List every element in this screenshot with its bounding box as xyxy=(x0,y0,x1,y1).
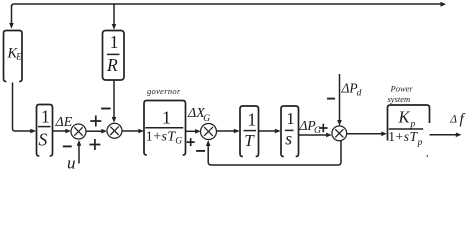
minus sign for 1/R input to S2 xyxy=(101,108,111,110)
summing junction S3 xyxy=(201,124,217,140)
input deltaPd drop into S4 xyxy=(337,74,342,126)
input u arrow into S1 xyxy=(77,140,82,164)
svg-text:p: p xyxy=(417,138,423,148)
wire S4 to power system block xyxy=(347,132,387,137)
svg-text:p: p xyxy=(410,120,416,130)
minus sign for deltaPd input xyxy=(327,98,335,100)
svg-text:S: S xyxy=(39,130,48,150)
svg-text:s: s xyxy=(285,129,292,149)
block 1/s xyxy=(281,106,299,157)
svg-text:,: , xyxy=(426,148,429,159)
wire feedback loop S4 bottom to S3 xyxy=(206,140,341,165)
svg-text:ΔP: ΔP xyxy=(341,81,358,96)
wire 1/S to summing junction S1 xyxy=(53,129,72,134)
svg-text:E: E xyxy=(15,52,22,62)
block power system Kp/(1+sTp) xyxy=(388,105,430,148)
wire drop into 1/R block xyxy=(112,4,117,30)
svg-text:1: 1 xyxy=(41,106,50,126)
svg-text:1+sT: 1+sT xyxy=(388,129,418,144)
label deltaE xyxy=(55,115,73,130)
block governor 1/(1+sTG) xyxy=(144,101,186,156)
svg-text:G: G xyxy=(203,114,210,124)
svg-text:K: K xyxy=(398,108,411,127)
wire S1 to S2 xyxy=(86,129,107,134)
label deltaXG xyxy=(187,106,210,124)
block 1/T xyxy=(240,106,259,157)
wire 1/T to 1/s block xyxy=(259,129,281,134)
minus sign for S3 feedback input xyxy=(196,150,205,152)
wire S3 to 1/T block xyxy=(217,129,240,134)
svg-text:1: 1 xyxy=(110,32,119,52)
block 1/R xyxy=(103,31,125,81)
summing junction S1 xyxy=(71,124,86,139)
wire S2 to governor block xyxy=(122,129,144,134)
stray comma mark xyxy=(426,148,429,159)
plus sign below wire S1-S2 xyxy=(89,139,100,150)
label deltaPd xyxy=(341,81,362,99)
svg-text:R: R xyxy=(106,55,118,75)
wire governor to summing junction S3 xyxy=(186,129,201,134)
svg-text:ΔE: ΔE xyxy=(55,115,73,130)
label Power system xyxy=(388,83,414,104)
svg-text:d: d xyxy=(357,89,362,99)
plus sign for S3 left input xyxy=(187,138,195,146)
wire output delta f xyxy=(430,133,462,138)
wire 1/R output into S2 xyxy=(112,80,117,123)
wire drop into KE block xyxy=(9,5,14,29)
plus sign for S4 left input xyxy=(319,124,328,133)
block KE xyxy=(4,31,23,82)
svg-text:1+sT: 1+sT xyxy=(146,130,177,145)
label deltaPG xyxy=(299,118,322,136)
wire top feedback horizontal xyxy=(12,2,447,7)
svg-text:Δ: Δ xyxy=(449,114,457,126)
summing junction S4 xyxy=(332,126,347,141)
label u xyxy=(67,154,76,173)
svg-text:1: 1 xyxy=(162,108,171,128)
svg-text:1: 1 xyxy=(286,109,295,128)
wire 1/s to summing junction S4 xyxy=(299,133,332,138)
block 1/S xyxy=(37,105,53,157)
minus sign for u input xyxy=(63,145,72,147)
label governor xyxy=(147,86,181,96)
svg-text:G: G xyxy=(175,137,182,147)
svg-text:Power: Power xyxy=(390,83,414,93)
svg-text:u: u xyxy=(67,154,76,173)
plus sign above wire S1-S2 xyxy=(90,116,101,127)
summing junction S2 xyxy=(107,123,122,138)
svg-text:governor: governor xyxy=(147,86,181,96)
svg-text:system: system xyxy=(388,94,411,104)
wire KE output to 1/S block xyxy=(13,83,37,134)
label delta f xyxy=(449,112,465,128)
svg-text:1: 1 xyxy=(248,109,257,129)
svg-text:T: T xyxy=(244,131,255,150)
